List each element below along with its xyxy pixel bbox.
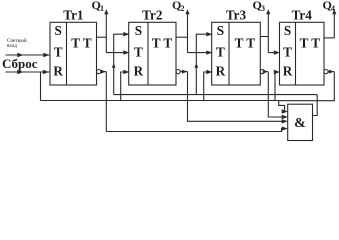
wire reset riser down at x=40.5 — [40, 72, 42, 101]
svg-text:T T: T T — [152, 36, 173, 51]
wire Q3 output: box to riser — [260, 36, 268, 38]
svg-text:S: S — [217, 23, 224, 38]
wire Q̄2 riser down and to AND gate input 3 — [188, 72, 285, 122]
arrow into R (Tr1) — [43, 70, 49, 74]
arrow into T (Tr3) — [206, 50, 212, 54]
svg-text:R: R — [53, 63, 63, 78]
svg-text:2: 2 — [181, 4, 185, 13]
svg-text:S: S — [55, 23, 62, 38]
arrow Q1 up — [104, 9, 108, 14]
wire Q̄1 circle to riser — [101, 71, 107, 73]
wire Q2 riser up to arrow — [187, 14, 189, 53]
wire Q4 riser up to arrow — [333, 14, 335, 38]
svg-text:R: R — [134, 63, 144, 78]
wire R riser into R of Tr3 — [204, 72, 208, 101]
AND gate U1 box — [288, 104, 313, 140]
wire AND output riser — [313, 95, 318, 116]
wire Q4 output: box to riser — [324, 37, 334, 39]
wire R riser into R of Tr4 — [275, 72, 276, 101]
inverted output circle Q̄3 (Tr3) — [260, 70, 264, 74]
svg-text:&: & — [294, 116, 306, 131]
arrow after Q̄4 circle — [329, 70, 334, 74]
wire Q1 to T input of Tr2 — [106, 52, 125, 54]
arrow Q4 up — [332, 9, 336, 14]
node Q3 output label — [253, 0, 266, 13]
wire Q̄4 riser down, left and jog into AND gate input 1 — [279, 72, 335, 112]
wire Q1 riser up to arrow — [105, 14, 107, 53]
flip-flop Tr4 box — [280, 22, 325, 85]
svg-text:S: S — [135, 23, 142, 38]
wire Q3 riser up to arrow — [267, 14, 269, 53]
wire Q1 output: box to riser — [97, 36, 107, 38]
wire R bus along bottom — [41, 100, 279, 102]
flip-flop Tr3 box — [212, 22, 261, 85]
svg-text:Tr2: Tr2 — [142, 7, 163, 22]
arrow after Q̄3 circle — [263, 70, 268, 74]
wire S feedback bus — [114, 94, 318, 96]
wire Q̄1 riser down — [105, 72, 107, 132]
svg-text:S: S — [284, 23, 291, 38]
arrow Q2 up — [185, 9, 189, 14]
inverted output circle Q̄2 (Tr2) — [176, 70, 180, 74]
svg-text:T: T — [134, 44, 143, 59]
wire Q̄1 bottom bus to AND gate — [106, 129, 284, 132]
arrow after Q̄2 circle — [182, 70, 187, 74]
arrow AND input 1 — [282, 109, 288, 113]
svg-text:вход: вход — [7, 43, 17, 49]
arrow into R (Tr4) — [274, 70, 280, 74]
node Q2 output label — [172, 0, 185, 13]
arrow into R (Tr2) — [123, 70, 129, 74]
arrow into T (Tr2) — [123, 50, 129, 54]
arrow up on S riser (Tr2) — [112, 63, 116, 67]
flip-flop Tr2 box — [129, 22, 176, 85]
svg-text:Tr1: Tr1 — [63, 7, 83, 22]
wire S riser into S of Tr2 — [114, 34, 125, 94]
arrow on reset wire — [17, 70, 23, 74]
wire Q2 output: box to riser — [176, 36, 188, 38]
arrow into T (Tr1) — [43, 53, 49, 57]
node Q4 output label — [323, 0, 336, 13]
wire Q̄4 circle to riser — [328, 71, 334, 73]
inverted output circle Q̄1 (Tr1) — [97, 70, 101, 74]
svg-text:Tr3: Tr3 — [226, 7, 247, 22]
arrow into S (Tr3) — [206, 32, 212, 36]
svg-text:T: T — [283, 44, 292, 59]
svg-text:Tr4: Tr4 — [292, 7, 313, 22]
arrow into S (Tr2) — [123, 32, 129, 36]
arrow up on S riser (Tr3) — [194, 63, 198, 67]
wire reset into R of Tr1 — [6, 71, 51, 73]
arrow AND input 3 — [282, 119, 288, 123]
svg-text:R: R — [283, 63, 293, 78]
arrow after Q̄1 circle — [101, 70, 106, 74]
arrow on count input wire — [17, 53, 23, 57]
svg-text:T T: T T — [300, 36, 321, 51]
wire R riser into R of Tr2 — [121, 72, 125, 101]
svg-text:Сброс: Сброс — [2, 56, 38, 71]
arrow Q3 up — [266, 9, 270, 14]
arrow into T (Tr4) — [274, 50, 280, 54]
label input Счетный вход (count input) — [7, 37, 27, 49]
svg-text:T T: T T — [235, 36, 256, 51]
svg-text:R: R — [216, 63, 226, 78]
flip-flop Tr1 box — [50, 22, 97, 85]
inverted output circle Q̄4 (Tr4) — [324, 70, 328, 74]
wire Q̄3 riser down and to AND gate input 2 — [268, 72, 284, 117]
wire Q2 to T input of Tr3 — [188, 52, 209, 54]
svg-text:T T: T T — [71, 36, 92, 51]
wire Q̄2 circle to riser — [180, 71, 187, 73]
arrow AND input 4 — [282, 126, 288, 130]
svg-text:T: T — [54, 44, 63, 59]
arrow AND input 2 — [282, 115, 288, 119]
node Q1 output label — [92, 0, 105, 13]
arrow into R (Tr3) — [206, 70, 212, 74]
svg-text:T: T — [216, 44, 225, 59]
wire count input into T of Tr1 — [6, 54, 51, 56]
wire Q3 to T input of Tr4 — [268, 52, 276, 54]
wire Q̄3 circle to riser — [265, 71, 269, 73]
svg-text:1: 1 — [100, 4, 104, 13]
wire S riser into S of Tr3 — [196, 34, 208, 94]
svg-text:3: 3 — [261, 4, 265, 13]
